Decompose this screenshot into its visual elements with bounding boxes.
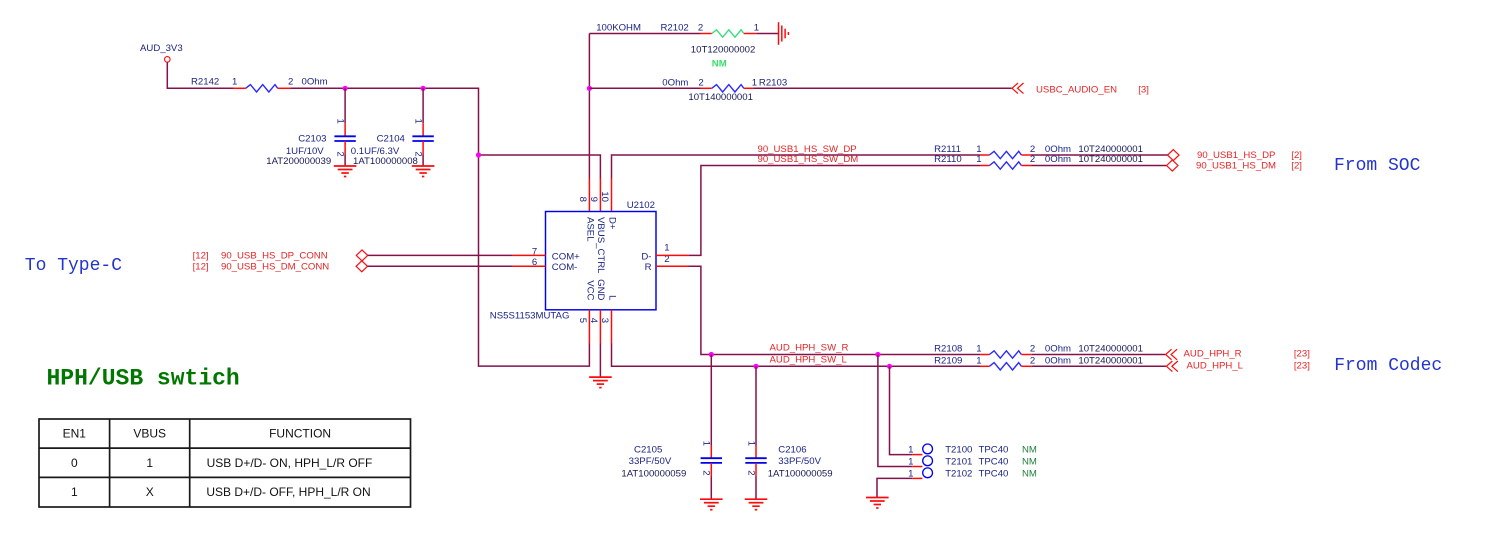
wire to right ground (756, 33, 778, 35)
svg-text:L: L (607, 295, 618, 301)
junction at 345,88 (343, 86, 348, 91)
capacitor C2105 wire top (710, 355, 712, 459)
svg-text:1AT100000059: 1AT100000059 (621, 469, 686, 480)
resistor R2108 labels (934, 344, 1143, 355)
svg-text:5: 5 (577, 318, 588, 323)
svg-text:D-: D- (641, 251, 651, 262)
svg-text:0Ohm: 0Ohm (662, 77, 688, 88)
svg-text:2: 2 (698, 23, 703, 34)
svg-text:0Ohm: 0Ohm (1045, 355, 1071, 366)
svg-text:NS5S1153MUTAG: NS5S1153MUTAG (490, 311, 570, 322)
svg-text:90_USB1_HS_DP: 90_USB1_HS_DP (1197, 150, 1275, 161)
offpage chevron AUD_HPH_R (1166, 349, 1178, 360)
svg-text:TPC40: TPC40 (979, 445, 1009, 456)
capacitor C2105 wire bottom (710, 463, 712, 499)
resistor R2109 (980, 363, 1032, 370)
wire to T2102 (877, 478, 912, 497)
offpage diamond 90_USB_HS_DM_CONN (356, 261, 367, 272)
junction at 478.5,155 (476, 152, 481, 157)
wire D+ (612, 155, 981, 212)
resistor R2103 row wire left (589, 87, 700, 89)
svg-text:0Ohm: 0Ohm (1045, 154, 1071, 165)
svg-text:USB D+/D- ON, HPH_L/R OFF: USB D+/D- ON, HPH_L/R OFF (207, 456, 373, 470)
svg-text:COM+: COM+ (552, 251, 580, 262)
svg-text:R2103: R2103 (759, 77, 787, 88)
resistor R2110 (980, 162, 1032, 169)
svg-text:90_USB_HS_DM_CONN: 90_USB_HS_DM_CONN (221, 261, 329, 272)
offpage chevron AUD_HPH_L (1166, 361, 1178, 372)
wire COM- (368, 265, 546, 267)
svg-text:NM: NM (712, 59, 727, 70)
svg-text:1: 1 (71, 485, 78, 499)
svg-text:9: 9 (588, 197, 599, 202)
svg-text:FUNCTION: FUNCTION (269, 427, 331, 441)
junction at 889.5,366.3 (887, 364, 892, 369)
svg-text:8: 8 (577, 197, 588, 202)
svg-text:R: R (645, 262, 652, 273)
ground under C2103 (334, 166, 357, 177)
svg-text:1AT100000008: 1AT100000008 (353, 156, 418, 167)
svg-text:2: 2 (698, 77, 703, 88)
wire COM+ (368, 254, 546, 256)
svg-text:TPC40: TPC40 (979, 469, 1009, 480)
svg-text:VBUS_CTRL: VBUS_CTRL (595, 217, 606, 274)
wire to diamond DP (1032, 154, 1168, 156)
svg-text:10T120000002: 10T120000002 (691, 45, 756, 56)
svg-text:1: 1 (908, 444, 913, 455)
svg-text:T2100: T2100 (945, 445, 972, 456)
resistor R2111 (980, 151, 1032, 158)
svg-text:1: 1 (745, 441, 756, 446)
capacitor C2103 wire top (344, 88, 346, 123)
wire AUD_3V3 stem (167, 62, 233, 88)
wire to T2101 (878, 355, 912, 467)
capacitor C2103 labels (266, 134, 331, 168)
resistor R2102 row wire (589, 33, 700, 35)
offpage diamond 90_USB1_HS_DP (1168, 150, 1179, 161)
svg-text:2: 2 (1030, 344, 1035, 355)
svg-text:AUD_HPH_L: AUD_HPH_L (1187, 360, 1244, 371)
wire ASEL vertical (588, 34, 590, 212)
svg-text:1: 1 (976, 344, 981, 355)
testpoint T2101 labels (945, 457, 1037, 468)
svg-text:33PF/50V: 33PF/50V (778, 456, 821, 467)
wire to chevron AUD_HPH_R (1032, 354, 1166, 356)
wire to T2100 (890, 366, 913, 454)
svg-text:10T140000001: 10T140000001 (688, 92, 753, 103)
svg-text:0Ohm: 0Ohm (1045, 344, 1071, 355)
capacitor C2106 wire bottom (755, 463, 757, 499)
junction at 589,88 (587, 86, 592, 91)
svg-text:10T240000001: 10T240000001 (1078, 355, 1143, 366)
resistor R2102 (701, 30, 757, 37)
svg-text:NM: NM (1022, 445, 1037, 456)
svg-text:1: 1 (908, 456, 913, 467)
wire to diamond DM (1032, 165, 1167, 167)
svg-text:2: 2 (1030, 355, 1035, 366)
svg-text:1: 1 (701, 441, 712, 446)
net 90_USB1_HS_DM label (1196, 160, 1302, 171)
net 90_USB_HS_DM_CONN label (193, 261, 330, 272)
svg-text:1: 1 (334, 119, 345, 124)
svg-text:[2]: [2] (1291, 150, 1302, 161)
capacitor C2103 wire bottom (344, 141, 346, 166)
svg-text:[23]: [23] (1294, 360, 1310, 371)
svg-text:10: 10 (599, 191, 610, 202)
testpoint T2100 (923, 444, 933, 454)
wire pin9 stub (599, 179, 601, 212)
svg-text:AUD_HPH_SW_R: AUD_HPH_SW_R (770, 343, 849, 354)
resistor R2109 labels (934, 355, 1143, 366)
testpoint T2102 (923, 468, 933, 478)
junction at 756,366.3 (753, 364, 758, 369)
capacitor C2104 (412, 136, 433, 141)
capacitor C2106 labels (768, 444, 833, 479)
svg-text:GND: GND (595, 279, 606, 300)
svg-text:VBUS: VBUS (133, 427, 166, 441)
svg-text:1: 1 (908, 468, 913, 479)
offpage diamond 90_USB_HS_DP_CONN (356, 250, 367, 261)
svg-text:0Ohm: 0Ohm (302, 77, 328, 88)
svg-text:2: 2 (288, 77, 293, 88)
ground under T2102 (866, 498, 889, 509)
offpage diamond 90_USB1_HS_DM (1167, 160, 1178, 171)
net AUD_HPH_R label (1184, 348, 1310, 359)
svg-text:90_USB1_HS_DM: 90_USB1_HS_DM (1196, 160, 1276, 171)
wire D- (pin1) (656, 166, 980, 256)
svg-text:U2102: U2102 (627, 200, 655, 211)
svg-text:C2104: C2104 (377, 134, 406, 145)
junction at 878,354.5 (875, 352, 880, 357)
svg-text:1: 1 (412, 119, 423, 124)
testpoint T2101 (923, 456, 933, 466)
svg-text:1: 1 (146, 456, 153, 470)
svg-text:NM: NM (1022, 457, 1037, 468)
capacitor C2103 (334, 136, 355, 141)
testpoint T2100 labels (945, 445, 1037, 456)
resistor R2111 labels (934, 144, 1143, 155)
svg-text:10T240000001: 10T240000001 (1078, 154, 1143, 165)
net AUD_HPH_L label (1187, 360, 1310, 371)
svg-text:T2102: T2102 (945, 469, 972, 480)
svg-text:10T240000001: 10T240000001 (1078, 344, 1143, 355)
resistor R2103 (701, 85, 754, 92)
testpoint T2102 labels (945, 469, 1037, 480)
resistor R2142 labels (191, 77, 328, 88)
capacitor C2104 wire bottom (422, 141, 424, 166)
resistor R2103 labels (662, 77, 787, 88)
svg-text:1: 1 (232, 77, 237, 88)
capacitor C2104 labels (351, 134, 418, 168)
table truth table (39, 419, 411, 507)
capacitor C2105 (701, 458, 722, 463)
svg-text:TPC40: TPC40 (979, 457, 1009, 468)
svg-text:R2108: R2108 (934, 344, 962, 355)
svg-text:C2105: C2105 (634, 444, 662, 455)
svg-text:[2]: [2] (1291, 160, 1302, 171)
svg-text:ASEL: ASEL (585, 217, 596, 242)
svg-text:1: 1 (976, 154, 981, 165)
svg-text:100KOHM: 100KOHM (596, 23, 641, 34)
svg-text:2: 2 (745, 470, 756, 475)
svg-text:2: 2 (1030, 154, 1035, 165)
svg-text:R2110: R2110 (934, 154, 962, 165)
svg-text:AUD_HPH_SW_L: AUD_HPH_SW_L (770, 354, 848, 365)
resistor R2102 labels (596, 23, 759, 34)
resistor R2142 (233, 85, 290, 92)
power symbol AUD_3V3 (165, 57, 171, 63)
svg-text:EN1: EN1 (63, 427, 87, 441)
svg-text:2: 2 (701, 470, 712, 475)
offpage chevron USBC_AUDIO_EN (1012, 83, 1024, 94)
net 90_USB1_HS_DP label (1197, 150, 1302, 161)
ground under C2104 (412, 166, 435, 177)
wire L pin (612, 310, 981, 367)
wire VCC stub (588, 310, 590, 344)
svg-text:90_USB1_HS_SW_DM: 90_USB1_HS_SW_DM (758, 154, 859, 165)
svg-text:R2109: R2109 (934, 355, 962, 366)
capacitor C2104 wire top (422, 88, 424, 123)
svg-text:90_USB_HS_DP_CONN: 90_USB_HS_DP_CONN (221, 251, 328, 262)
svg-text:D+: D+ (607, 217, 618, 230)
svg-text:COM-: COM- (552, 262, 578, 273)
ground under C2106 (745, 499, 768, 510)
ground under C2105 (700, 499, 723, 510)
junction at 711,354.5 (709, 352, 714, 357)
capacitor C2106 (745, 458, 766, 463)
svg-text:R2142: R2142 (191, 77, 219, 88)
junction at 423,88 (421, 86, 426, 91)
svg-text:2: 2 (334, 151, 345, 156)
ground rotated right (779, 22, 789, 45)
svg-text:C2106: C2106 (778, 444, 806, 455)
wire R (pin2) (656, 266, 980, 354)
resistor R2108 (980, 351, 1032, 358)
svg-text:1AT200000039: 1AT200000039 (266, 156, 331, 167)
IC U2102 (546, 212, 657, 310)
svg-text:AUD_3V3: AUD_3V3 (140, 43, 183, 54)
svg-text:0: 0 (71, 456, 78, 470)
net 90_USB_HS_DP_CONN label (193, 251, 328, 262)
svg-text:[3]: [3] (1138, 85, 1149, 96)
svg-text:1: 1 (664, 243, 669, 254)
svg-text:To Type-C: To Type-C (25, 256, 122, 276)
svg-text:NM: NM (1022, 469, 1037, 480)
svg-text:From Codec: From Codec (1334, 356, 1442, 376)
ground under U2102 (589, 377, 612, 388)
svg-text:1: 1 (976, 355, 981, 366)
resistor R2110 labels (934, 154, 1143, 165)
svg-text:VCC: VCC (585, 280, 596, 300)
svg-text:C2103: C2103 (298, 134, 326, 145)
wire VBUS_CTRL branch (479, 155, 601, 179)
wire to USBC_AUDIO_EN (753, 87, 1011, 89)
capacitor C2105 labels (621, 444, 686, 479)
svg-text:33PF/50V: 33PF/50V (629, 456, 672, 467)
capacitor C2106 wire top (755, 366, 757, 458)
svg-text:[12]: [12] (193, 251, 209, 262)
svg-text:HPH/USB swtich: HPH/USB swtich (47, 365, 240, 391)
svg-text:[12]: [12] (193, 261, 209, 272)
net USBC_AUDIO_EN (1036, 85, 1149, 96)
svg-text:1: 1 (754, 23, 759, 34)
svg-text:R2102: R2102 (661, 23, 689, 34)
svg-text:1: 1 (752, 77, 757, 88)
svg-text:T2101: T2101 (945, 457, 972, 468)
svg-text:1AT100000059: 1AT100000059 (768, 469, 833, 480)
svg-text:USBC_AUDIO_EN: USBC_AUDIO_EN (1036, 85, 1117, 96)
svg-text:[23]: [23] (1294, 348, 1310, 359)
wire GND pin (599, 310, 601, 377)
svg-text:X: X (146, 485, 154, 499)
svg-text:USB D+/D- OFF, HPH_L/R ON: USB D+/D- OFF, HPH_L/R ON (206, 485, 370, 499)
svg-text:AUD_HPH_R: AUD_HPH_R (1184, 348, 1242, 359)
wire AUD_3V3 bus (290, 88, 589, 366)
wire to chevron AUD_HPH_L (1032, 365, 1166, 367)
svg-text:From SOC: From SOC (1334, 156, 1421, 176)
